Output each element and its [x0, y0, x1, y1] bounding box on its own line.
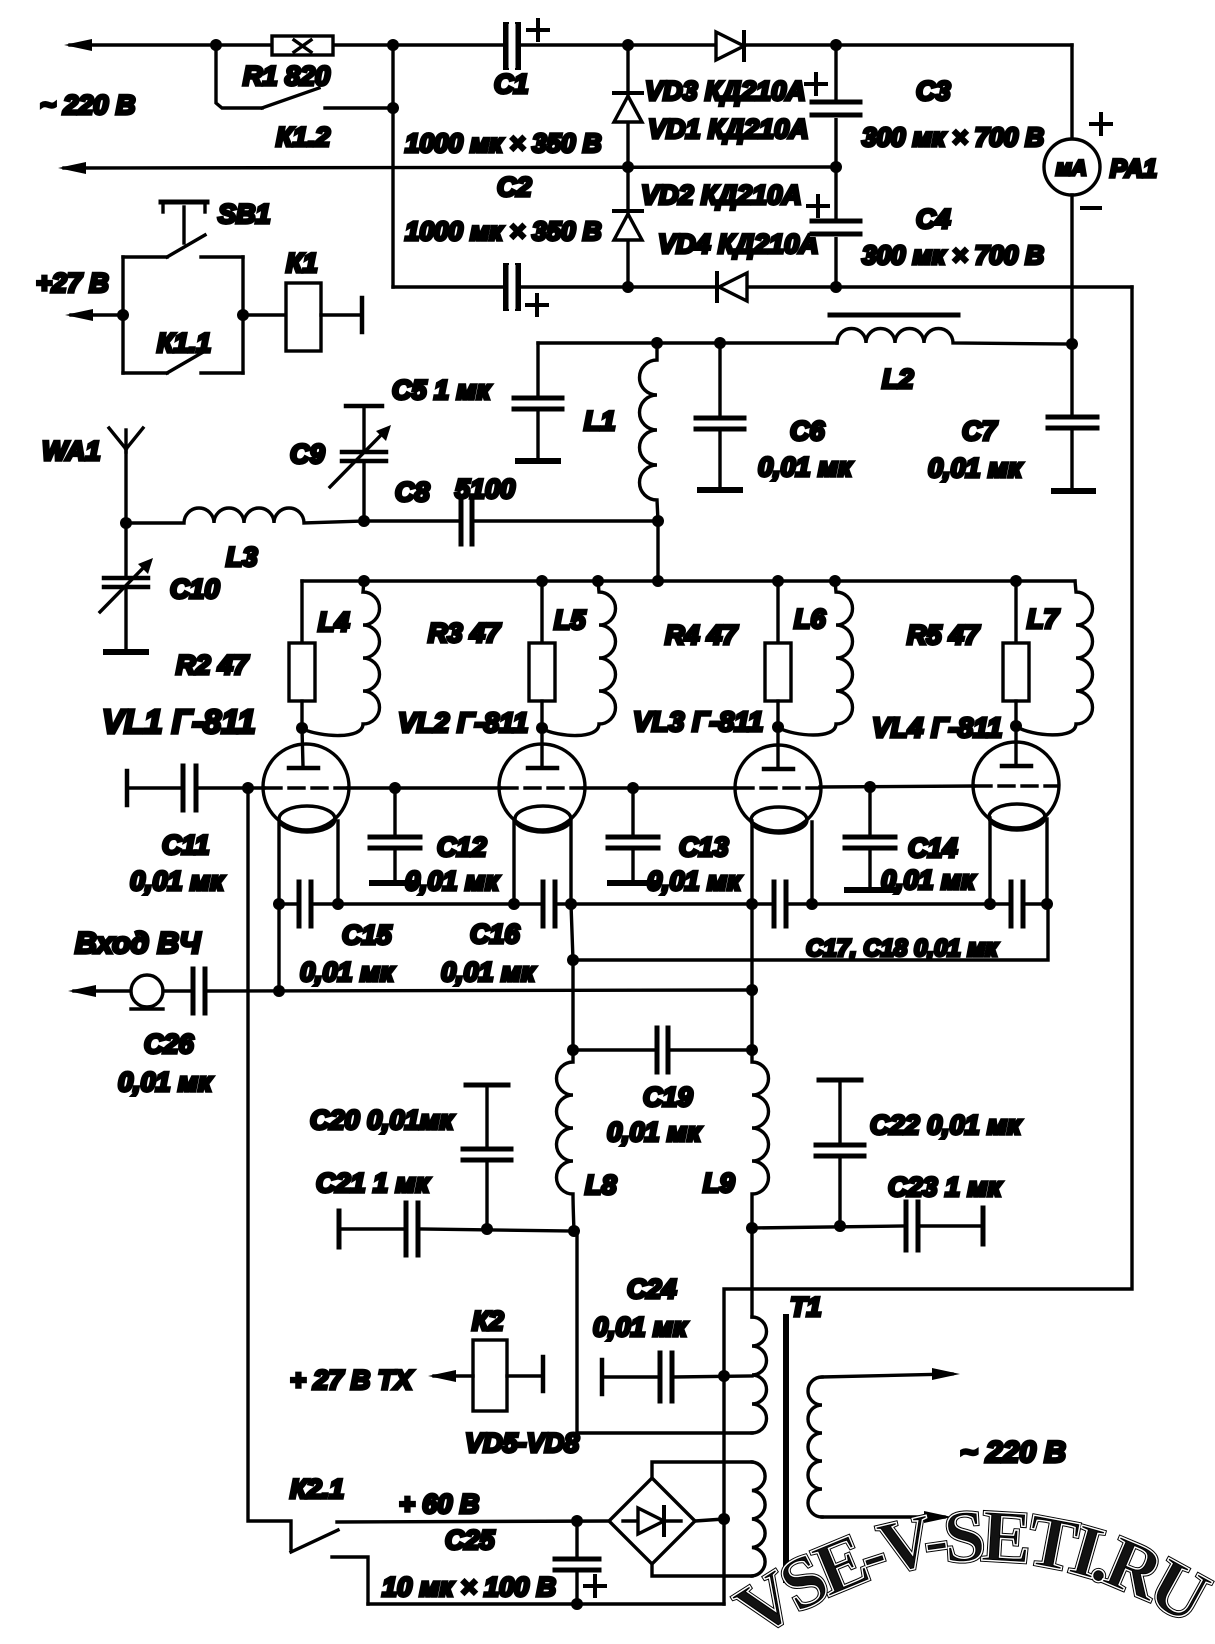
terminal bar C20 top: [466, 1083, 508, 1088]
node C22 bottom: [834, 1220, 846, 1232]
capacitor C5 stem top: [536, 343, 539, 396]
arrow +27V left: [65, 309, 93, 321]
wire C15 left lead: [279, 902, 297, 905]
svg-text:РА1: РА1: [1110, 155, 1157, 183]
tube VL1 anode: [289, 728, 318, 768]
wire to K1 coil: [243, 313, 286, 316]
tube VL1 envelope: [263, 744, 349, 830]
svg-text:С3: С3: [916, 76, 951, 106]
svg-text:Т1: Т1: [790, 1292, 822, 1322]
svg-text:L3: L3: [226, 542, 258, 572]
capacitor C3 (electrolytic): [810, 100, 862, 118]
wire T1 primary bottom to L8: [577, 1231, 752, 1433]
svg-text:R4 47: R4 47: [665, 620, 739, 650]
svg-text:L2: L2: [882, 364, 914, 394]
ground bar C10: [106, 649, 146, 655]
capacitor C17 plates: [774, 882, 786, 926]
capacitor C26 plates: [193, 969, 205, 1013]
svg-text:0,01 мк: 0,01 мк: [300, 957, 395, 987]
node y521 x658: [652, 515, 664, 527]
node C18 right: [1041, 898, 1053, 910]
resistor R2: [289, 643, 315, 701]
node C20 bottom: [481, 1223, 493, 1235]
switch K1.1 blade: [167, 351, 205, 373]
wire K2.1 upper contact to C25: [337, 1521, 609, 1522]
meter minus: [1082, 206, 1100, 210]
wire VL3 left leg down to L9: [750, 904, 753, 1050]
svg-text:R1 820: R1 820: [243, 61, 330, 91]
node x628 bottom: [622, 281, 634, 293]
switch SB1 blade: [167, 235, 205, 257]
node C16 left: [508, 898, 520, 910]
wire C19 right lead: [670, 1048, 752, 1051]
svg-text:WA1: WA1: [42, 436, 101, 466]
tube VL3 anode: [764, 727, 793, 769]
wire bottom common: [368, 1602, 724, 1605]
node L5 top on bus: [592, 575, 604, 587]
capacitor C9 stem bottom: [362, 463, 365, 521]
tube VL3 cathode: [751, 807, 807, 833]
wire K1.1 left vertical: [121, 257, 124, 373]
wire filament bus VL1-VL2: [338, 902, 514, 905]
svg-text:+27 В: +27 В: [36, 268, 109, 298]
svg-text:С1: С1: [494, 69, 529, 99]
tube VL3 grid (dashed): [738, 786, 818, 789]
node R3 top on bus: [536, 575, 548, 587]
wire HV return bus right side: [724, 287, 1132, 1604]
node x836 bottom: [830, 281, 842, 293]
tube VL1 grid (dashed): [266, 786, 346, 789]
wire filament bus VL3-VL4: [812, 902, 990, 905]
arrow K2 left: [428, 1370, 456, 1382]
svg-text:L6: L6: [794, 604, 826, 634]
svg-text:L7: L7: [1027, 604, 1060, 634]
inductor L6: [779, 581, 853, 735]
C4 plus: [808, 196, 828, 216]
capacitor C4 (electrolytic): [810, 219, 862, 237]
svg-text:1000 мк × 350 В: 1000 мк × 350 В: [405, 128, 602, 158]
svg-text:К1: К1: [286, 248, 318, 278]
capacitor C15 plates: [299, 882, 311, 926]
capacitor C12: [370, 788, 420, 883]
button SB1 plunger: [161, 202, 207, 243]
capacitor C7 stem: [1070, 344, 1073, 415]
diode VD2 (up): [614, 214, 642, 240]
svg-text:С13: С13: [679, 832, 729, 862]
node top wire at R1 left: [210, 39, 222, 51]
svg-text:VL4 Г-811: VL4 Г-811: [872, 712, 1002, 743]
tube VL3 envelope: [735, 745, 821, 831]
node x573 y960: [567, 954, 579, 966]
wire grid bias vertical x248: [248, 788, 291, 1549]
wire AC line 1 top: [70, 43, 1072, 46]
wire bridge right to bus: [695, 1519, 724, 1521]
node L6 top on bus: [829, 575, 841, 587]
svg-text:0,01 мк: 0,01 мк: [593, 1312, 688, 1342]
svg-text:С12: С12: [437, 832, 487, 862]
C1 plus sign: [528, 20, 548, 40]
node x628 top: [622, 39, 634, 51]
switch K2.1 blade: [291, 1530, 338, 1552]
arrow AC1 left: [64, 39, 92, 51]
svg-text:L1: L1: [584, 406, 616, 436]
capacitor C13: [608, 788, 658, 883]
svg-text:С19: С19: [643, 1082, 693, 1112]
node C16 right: [565, 898, 577, 910]
node C6 top: [714, 337, 726, 349]
wire R5 top lead: [1014, 581, 1017, 643]
wire grid bus seg3: [584, 786, 736, 789]
connector XW1 circle: [131, 975, 163, 1007]
terminal bar C22 top: [819, 1078, 861, 1083]
wire y521 left segment: [364, 519, 459, 522]
node antenna / C10: [120, 517, 132, 529]
wire grid-stopper bus y581: [302, 579, 1075, 582]
svg-text:С10: С10: [170, 574, 220, 604]
wire K2 left lead: [434, 1374, 473, 1377]
svg-text:С26: С26: [144, 1029, 195, 1059]
switch K1.2 blade: [262, 88, 319, 108]
wire K2 right lead: [507, 1374, 543, 1377]
svg-text:К2: К2: [472, 1306, 504, 1336]
capacitor C5 stem bottom: [536, 411, 539, 458]
svg-text:VL3 Г-811: VL3 Г-811: [633, 706, 763, 737]
svg-text:С8: С8: [395, 477, 430, 507]
wire mains top lead: [822, 1374, 952, 1377]
svg-text:300 мк × 700 В: 300 мк × 700 В: [862, 240, 1044, 270]
node x836 mid: [830, 161, 842, 173]
wire filament bus VL2-VL3: [571, 902, 752, 905]
node L8 top / C19 left: [567, 1044, 579, 1056]
wire C18 right lead: [1025, 902, 1047, 905]
node K1 coil left: [237, 309, 249, 321]
wire R5 bottom lead: [1014, 701, 1017, 726]
svg-text:~ 220 В: ~ 220 В: [40, 90, 135, 120]
terminal bar C5: [518, 458, 558, 464]
svg-text:L9: L9: [703, 1168, 735, 1198]
terminal bar C7: [1054, 488, 1093, 494]
wire AC line 2: [64, 167, 836, 168]
svg-text:мА: мА: [1056, 157, 1087, 180]
wire K1 right lead: [321, 313, 362, 316]
tube VL3 filament legs: [752, 821, 812, 904]
wire SB1 branch top: [123, 255, 167, 258]
capacitor C9 arrow: [330, 430, 386, 487]
tube VL2 anode: [528, 728, 557, 768]
wire C17 right lead: [788, 902, 812, 905]
svg-text:0,01 мк: 0,01 мк: [647, 866, 742, 896]
wire y521 right segment: [474, 519, 658, 522]
node C13 top: [627, 782, 639, 794]
capacitor C5 plates: [514, 398, 562, 409]
C3 plus: [806, 74, 826, 94]
terminal bar C21 left: [337, 1211, 342, 1247]
wire x658 drop to bus: [656, 521, 659, 581]
svg-text:+ 60 В: + 60 В: [399, 1489, 479, 1519]
wire C17 left lead: [752, 902, 772, 905]
resistor R5: [1003, 643, 1029, 701]
svg-text:С9: С9: [290, 439, 325, 469]
svg-text:С4: С4: [916, 204, 951, 234]
capacitor C6 stem bottom: [718, 431, 721, 487]
transformer T1 core: [783, 1317, 789, 1580]
svg-text:L5: L5: [554, 605, 586, 635]
tube VL2 grid (dashed): [502, 786, 582, 789]
arrow AC2 left: [58, 162, 86, 174]
wire C23 right lead: [920, 1224, 983, 1227]
svg-text:С11: С11: [162, 830, 210, 860]
capacitor C7 plates: [1048, 417, 1097, 428]
terminal bar K1: [360, 298, 365, 332]
wire C21 right lead: [420, 1229, 574, 1231]
wire C15 right lead: [313, 902, 338, 905]
wire C21 left lead: [339, 1227, 403, 1230]
wire RF to C26: [163, 989, 191, 992]
wire meter to L2 node: [1070, 195, 1073, 344]
relay coil K2: [473, 1340, 507, 1411]
inductor L9: [752, 1050, 769, 1228]
wire filament return right hook: [573, 904, 1048, 960]
wire K1.1 right vertical: [241, 257, 244, 373]
svg-text:L4: L4: [318, 607, 350, 637]
node C17 right: [806, 898, 818, 910]
svg-text:К1.1: К1.1: [157, 328, 211, 358]
node C14 top: [864, 781, 876, 793]
svg-text:С23 1 мк: С23 1 мк: [888, 1172, 1003, 1202]
wire doubler mid vertical: [626, 45, 629, 287]
svg-text:К1.2: К1.2: [276, 122, 330, 152]
svg-text:300 мк × 700 В: 300 мк × 700 В: [862, 122, 1044, 152]
node R4 top on bus: [772, 575, 784, 587]
inductor L5: [543, 581, 616, 736]
wire R4 top lead: [776, 581, 779, 643]
capacitor C24 plates: [660, 1353, 672, 1401]
svg-text:С22 0,01 мк: С22 0,01 мк: [870, 1110, 1022, 1140]
inductor L2 core line: [830, 313, 958, 318]
transformer T1 mains winding: [808, 1377, 822, 1517]
antenna WA1: [109, 428, 143, 523]
node VL2 anode joint: [536, 722, 548, 734]
inductor L8: [557, 1050, 575, 1231]
capacitor C10 stem: [124, 523, 127, 576]
node x836 top: [830, 39, 842, 51]
wire C19 left lead: [573, 1048, 655, 1051]
resistor R4: [765, 643, 791, 701]
node C9 bottom / L3 right: [358, 515, 370, 527]
wire bridge bottom to T1: [652, 1564, 752, 1576]
node VL1 anode joint: [296, 722, 308, 734]
diode VD4 (series left, bottom wire): [719, 273, 747, 301]
capacitor C19 plates: [657, 1028, 668, 1072]
wire plate feed row y343: [538, 341, 837, 344]
connector XW1 base: [131, 1007, 163, 1010]
svg-text:VL2 Г-811: VL2 Г-811: [398, 707, 528, 738]
svg-text:С6: С6: [790, 416, 825, 446]
svg-text:SB1: SB1: [218, 199, 271, 229]
wire grid bus seg2: [348, 786, 500, 789]
wire C16 left lead: [514, 902, 541, 905]
wire grid bus seg4: [820, 786, 974, 787]
svg-text:VD2 КД210А: VD2 КД210А: [641, 180, 802, 210]
tube VL4 filament legs: [990, 818, 1047, 904]
svg-text:VD4 КД210А: VD4 КД210А: [658, 229, 819, 259]
wire R3 bottom lead: [540, 701, 543, 728]
node R5 top on bus: [1010, 575, 1022, 587]
svg-text:С21 1 мк: С21 1 мк: [316, 1168, 431, 1198]
capacitor C16 plates: [543, 882, 555, 926]
terminal bar C23 right: [981, 1208, 986, 1244]
svg-text:VD5-VD8: VD5-VD8: [465, 1428, 579, 1458]
wire R3 top lead: [540, 581, 543, 643]
wire SB1 right stub: [201, 255, 243, 258]
tube VL4 envelope: [973, 742, 1059, 828]
svg-text:R2 47: R2 47: [176, 650, 250, 680]
node C15 left: [273, 898, 285, 910]
svg-text:VD3 КД210А: VD3 КД210А: [645, 76, 806, 106]
svg-text:С2: С2: [497, 172, 532, 202]
svg-text:Вход ВЧ: Вход ВЧ: [75, 927, 201, 960]
capacitor C18 plates: [1011, 882, 1023, 926]
relay coil K1: [286, 283, 321, 351]
wire C23 left lead: [752, 1226, 904, 1228]
capacitor C6 stem: [718, 343, 721, 416]
svg-text:С24: С24: [627, 1274, 677, 1304]
capacitor C9 plates: [342, 452, 386, 461]
wire C11 left lead: [127, 786, 181, 789]
wire L9 to T1 primary: [750, 1228, 753, 1317]
capacitor C14: [845, 787, 895, 890]
capacitor C9 top bar: [346, 404, 382, 409]
inductor L4: [303, 581, 380, 736]
capacitor C10 plates: [104, 578, 148, 587]
wire K2.1 lower throw: [332, 1557, 368, 1604]
tube VL1 filament legs: [279, 820, 338, 904]
node RF x279: [273, 985, 285, 997]
wire +27V arrow lead: [71, 313, 123, 316]
capacitor C9 stem top: [362, 406, 365, 450]
capacitor C23 plates: [906, 1202, 918, 1250]
wire K1.2 right lead: [325, 106, 393, 109]
capacitor C8 plates: [461, 499, 472, 544]
node L4 top on bus: [358, 575, 370, 587]
svg-text:VD1 КД210А: VD1 КД210А: [648, 114, 809, 144]
svg-text:~ 220 В: ~ 220 В: [960, 1436, 1066, 1469]
node VL3 anode joint: [772, 721, 784, 733]
svg-text:VL1 Г-811: VL1 Г-811: [102, 703, 256, 740]
tube VL2 envelope: [499, 744, 585, 830]
wire K1.2 left lead: [216, 45, 262, 108]
transformer T1 primary upper: [752, 1317, 767, 1433]
svg-text:L8: L8: [585, 1170, 617, 1200]
wire grid bus seg1: [198, 786, 264, 789]
svg-text:С16: С16: [470, 919, 521, 949]
wire VL1 leg to RF bus: [277, 904, 280, 991]
wire R4 bottom lead: [776, 701, 779, 727]
C25 plus: [585, 1576, 605, 1596]
svg-text:С25: С25: [445, 1525, 496, 1555]
wire K1.1 right stub bottom: [201, 371, 243, 374]
tube VL4 cathode: [989, 804, 1045, 830]
svg-text:0,01 мк: 0,01 мк: [130, 866, 225, 896]
svg-text:1000 мк × 350 В: 1000 мк × 350 В: [405, 216, 602, 246]
tube VL4 grid (dashed): [976, 784, 1056, 787]
node L1 top: [651, 337, 663, 349]
svg-text:0,01 мк: 0,01 мк: [441, 957, 536, 987]
svg-text:К2.1: К2.1: [290, 1474, 344, 1504]
wire PSU left vertical: [391, 45, 394, 287]
wire K1.1 branch bottom: [123, 371, 167, 374]
terminal bar K2: [541, 1357, 546, 1391]
resistor R1 (fusible, box with X): [272, 36, 333, 55]
capacitor C6 plates: [696, 418, 744, 429]
node C18 left: [984, 898, 996, 910]
node C25 top: [571, 1515, 583, 1527]
svg-text:С7: С7: [962, 416, 998, 446]
node VL4 anode joint: [1010, 720, 1022, 732]
node C24 at bus: [718, 1370, 730, 1382]
wire PSU right vertical: [834, 45, 837, 287]
node L2 right / C7 top: [1066, 338, 1078, 350]
terminal bar C6: [700, 487, 740, 493]
svg-text:5100: 5100: [455, 474, 515, 504]
node C12 top: [389, 782, 401, 794]
wire meter drop: [1070, 45, 1073, 139]
wire C24 left lead: [602, 1375, 658, 1378]
svg-text:0,01 мк: 0,01 мк: [758, 452, 853, 482]
node x628 mid: [622, 161, 634, 173]
node L8 bottom: [568, 1225, 580, 1237]
svg-text:0,01 мк: 0,01 мк: [405, 866, 500, 896]
capacitor C1 plates: [506, 25, 518, 67]
terminal bar C24 left: [600, 1360, 605, 1394]
tube VL1 cathode: [279, 806, 335, 832]
capacitor C10 arrow: [100, 563, 148, 612]
svg-text:0,01 мк: 0,01 мк: [118, 1067, 213, 1097]
terminal bar C11 left: [125, 771, 130, 805]
inductor L7: [1017, 581, 1093, 735]
svg-text:С17, С18 0,01 мк: С17, С18 0,01 мк: [806, 935, 999, 962]
capacitor C2 plates: [506, 266, 518, 308]
wire R2 top lead: [300, 581, 303, 643]
svg-text:10 мк × 100 В: 10 мк × 100 В: [382, 1572, 556, 1602]
arrow mains bottom: [924, 1511, 952, 1523]
svg-text:С14: С14: [908, 833, 958, 863]
diode VD1 (up): [614, 96, 642, 122]
resistor R3: [529, 643, 555, 701]
wire R2 bottom lead: [300, 701, 303, 728]
wire RF bus: [207, 990, 752, 991]
inductor L2: [837, 329, 1072, 345]
capacitor C10 stem bottom: [124, 589, 127, 650]
C2 plus sign: [527, 295, 547, 315]
capacitor C7 stem bottom: [1070, 430, 1073, 488]
capacitor C11 plates: [183, 766, 196, 810]
capacitor C22: [816, 1080, 864, 1226]
node top wire at x393: [387, 39, 399, 51]
svg-text:0,01 мк: 0,01 мк: [607, 1117, 702, 1147]
tube VL2 filament legs: [514, 820, 571, 904]
meter plus: [1091, 114, 1111, 134]
tube VL2 cathode: [515, 806, 571, 832]
wire C18 left lead: [990, 902, 1009, 905]
svg-text:+ 27 В ТХ: + 27 В ТХ: [290, 1365, 414, 1395]
arrow RF left: [68, 985, 96, 997]
node C15 right: [332, 898, 344, 910]
svg-text:С20 0,01мк: С20 0,01мк: [310, 1105, 455, 1135]
node K1.1 left: [117, 309, 129, 321]
node RF at x752: [746, 984, 758, 996]
svg-text:0,01 мк: 0,01 мк: [881, 865, 976, 895]
